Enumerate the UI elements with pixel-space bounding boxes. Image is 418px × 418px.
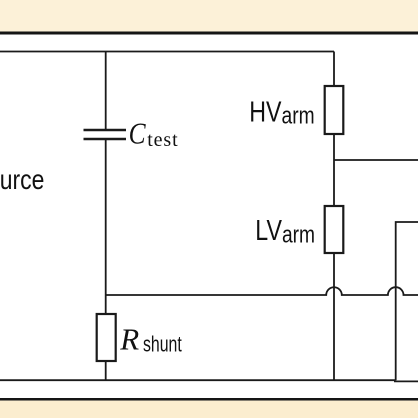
wire bottom rail right segment: [394, 380, 418, 382]
wire top rail: [0, 51, 334, 53]
svg-text:C: C: [129, 117, 147, 151]
wire right corner tap: [396, 222, 418, 380]
top cream band: [0, 0, 418, 32]
wire mid-right tap: [334, 159, 418, 161]
capacitor C_test plates: [84, 130, 127, 139]
wire shunt rail with hops: [106, 287, 418, 295]
wire bottom rail: [0, 379, 396, 381]
top frame border line: [0, 32, 418, 35]
svg-text:R: R: [119, 322, 139, 357]
svg-text:test: test: [147, 129, 178, 151]
bottom frame border line: [0, 398, 418, 401]
wire LV down to bottom rail: [333, 253, 335, 380]
wire HV branch top: [333, 52, 335, 87]
wire capacitor branch bottom: [105, 140, 107, 314]
svg-text:shunt: shunt: [143, 333, 182, 357]
label source (cropped): [0, 165, 44, 196]
label LV_arm: [255, 213, 315, 248]
resistor LV_arm body: [325, 206, 344, 253]
svg-text:ource: ource: [0, 165, 44, 196]
label HV_arm: [249, 95, 314, 129]
resistor R_shunt body: [97, 314, 116, 361]
bottom cream band: [0, 401, 418, 418]
wire HV to LV: [333, 134, 335, 206]
label C_test: [129, 117, 179, 151]
resistor HV_arm body: [325, 86, 344, 134]
label R_shunt: [119, 322, 182, 357]
wire shunt to bottom rail: [105, 361, 107, 380]
wire capacitor branch top: [105, 52, 107, 130]
